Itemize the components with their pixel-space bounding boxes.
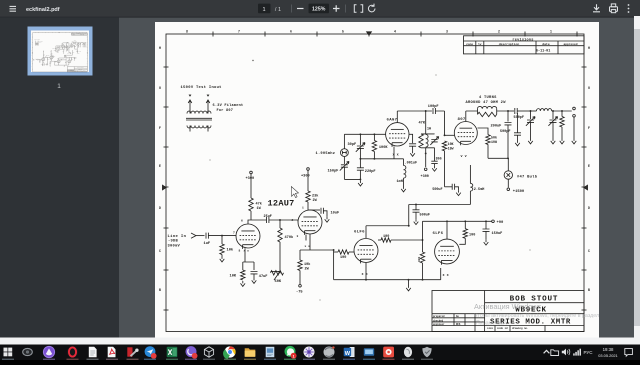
svg-text:/ 1: / 1 <box>275 7 281 13</box>
separator <box>345 5 347 13</box>
acrobat icon <box>108 347 116 357</box>
thumbnail page <box>31 31 89 73</box>
svg-text:W: W <box>345 351 351 357</box>
mail app icon <box>145 346 156 357</box>
blue document icon <box>266 347 275 357</box>
excel icon <box>167 347 178 357</box>
download icon <box>593 4 600 12</box>
toolbar <box>0 0 640 17</box>
svg-text:03.05.2021: 03.05.2021 <box>598 353 617 358</box>
tray folder icon <box>551 350 559 356</box>
svg-text:1: 1 <box>293 354 295 358</box>
music app icon <box>383 347 394 358</box>
horizontal scrollbar <box>0 338 640 345</box>
purple app icon <box>43 346 54 357</box>
rotate icon <box>368 4 375 12</box>
search icon <box>23 348 33 355</box>
svg-text:1: 1 <box>262 7 265 13</box>
tray speaker icon <box>562 349 566 356</box>
folder icon <box>245 348 256 357</box>
vertical scrollbar <box>634 16 640 338</box>
thumbnail mini schematic <box>32 31 89 71</box>
chrome icon <box>224 346 235 357</box>
monitor icon <box>364 348 374 356</box>
pdf page <box>155 22 599 338</box>
print icon <box>610 4 618 13</box>
shield icon <box>422 347 431 357</box>
start button <box>4 348 13 357</box>
separator <box>291 5 293 13</box>
viber icon <box>186 346 197 357</box>
svg-text:125%: 125% <box>312 7 326 13</box>
hamburger menu icon <box>10 6 17 11</box>
svg-text:РУС: РУС <box>584 350 594 355</box>
word icon <box>350 347 355 357</box>
taskbar <box>0 345 640 361</box>
overflow menu dots <box>628 4 630 13</box>
zoom minus <box>297 8 304 10</box>
tray network icon <box>573 349 581 356</box>
running app indicators <box>2 359 433 360</box>
thumbnail selection border <box>28 27 93 76</box>
egg icon <box>404 347 412 357</box>
opera icon <box>67 346 78 357</box>
svg-text:19:38: 19:38 <box>603 347 614 352</box>
svg-text:Чтобы активировать Windows, пе: Чтобы активировать Windows, перейдите в … <box>474 312 599 319</box>
schematic drawing <box>159 30 590 332</box>
svg-text:"Параметры".: "Параметры". <box>474 320 507 326</box>
svg-text:1: 1 <box>57 83 61 90</box>
zoom box <box>309 4 330 14</box>
mouse cursor <box>291 187 298 198</box>
fit page icon <box>354 5 362 12</box>
sidebar background <box>0 16 119 338</box>
zoom plus <box>333 5 340 12</box>
sphere icon <box>324 347 335 358</box>
tray chevron <box>544 350 550 353</box>
scan specks <box>210 60 531 301</box>
whatsapp icon <box>285 346 296 357</box>
svg-text:eckfinal2.pdf: eckfinal2.pdf <box>26 7 60 13</box>
svg-text:Активация Windows: Активация Windows <box>474 302 542 311</box>
page number box <box>258 4 271 14</box>
photo tool icon <box>127 347 132 356</box>
3d box icon <box>203 346 214 357</box>
web app icon <box>304 347 315 358</box>
action center icon <box>625 349 633 357</box>
notepad icon <box>89 347 97 357</box>
